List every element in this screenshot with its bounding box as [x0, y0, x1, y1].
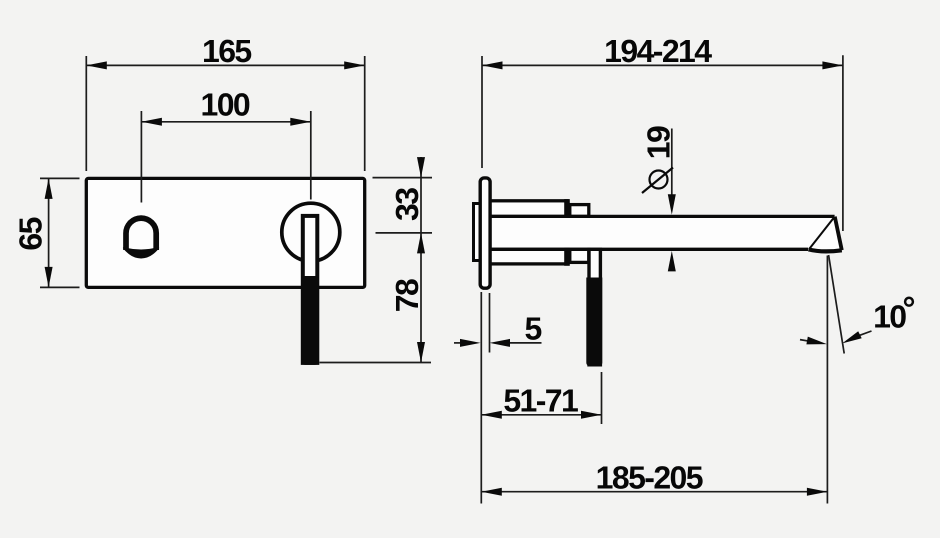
- lever front white part: [303, 216, 318, 363]
- spout tip: [809, 216, 842, 250]
- sleeve lower band: [490, 249, 568, 264]
- svg-text:100: 100: [201, 86, 250, 122]
- svg-text:10: 10: [873, 298, 906, 334]
- lever side white part: [589, 249, 600, 364]
- dimension 33 and 78: [320, 157, 433, 363]
- lever front black part: [301, 276, 319, 365]
- collar lower: [570, 249, 589, 262]
- svg-text:194-214: 194-214: [604, 33, 712, 69]
- svg-text:65: 65: [13, 217, 49, 250]
- svg-text:5: 5: [524, 311, 541, 347]
- dimension 194-214: [482, 55, 843, 231]
- spout tube: [481, 218, 833, 248]
- diameter 19 label: [671, 129, 673, 197]
- lever side black part: [586, 278, 602, 366]
- joint bar upper: [564, 199, 570, 218]
- in-wall body: [474, 204, 483, 261]
- wall plate front view: [86, 178, 364, 287]
- sleeve upper band: [490, 201, 568, 217]
- dimension 51-71: [481, 372, 601, 424]
- svg-text:185-205: 185-205: [596, 460, 703, 496]
- spout front view outline: [126, 218, 156, 250]
- svg-text:51-71: 51-71: [503, 382, 578, 418]
- dimension 65: [40, 178, 80, 287]
- svg-text:165: 165: [202, 33, 251, 69]
- dimension 165: [86, 56, 364, 171]
- wall plate side view: [480, 178, 490, 288]
- handle rosette circle: [282, 203, 340, 261]
- svg-text:78: 78: [389, 279, 425, 312]
- dimension 100: [141, 111, 310, 203]
- svg-text:33: 33: [389, 188, 425, 221]
- dimension 185-205: [481, 256, 827, 504]
- collar upper: [570, 205, 589, 217]
- angle 10 degrees: [829, 255, 845, 354]
- joint bar lower: [564, 248, 570, 266]
- dimension 5: [454, 292, 542, 504]
- svg-text:19: 19: [641, 126, 677, 159]
- spout outlet lens: [124, 248, 159, 258]
